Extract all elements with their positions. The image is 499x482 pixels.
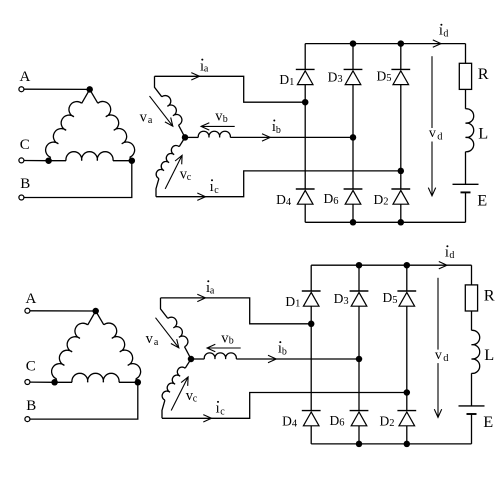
diode D4 (top circuit) [296,188,315,190]
svg-text:A: A [26,291,37,307]
svg-text:E: E [483,412,493,431]
wire ib to bridge (top circuit) [230,136,353,138]
svg-text:R: R [478,64,489,83]
arrow ic (bottom circuit) [203,415,211,422]
delta winding A-B (right side) (bottom circuit) [96,311,104,325]
wire ic to bridge (top circuit) [156,171,401,197]
svg-text:b: b [223,114,228,125]
node delta right vertex (top circuit) [129,157,136,164]
left rail (top circuit) [304,44,306,70]
junction top bus / right rail (bottom circuit) [404,262,411,269]
inductor L (bottom circuit) [472,330,480,373]
wire R to L (bottom circuit) [471,311,473,330]
svg-text:b: b [282,347,287,358]
wire B to delta right vertex (bottom circuit) [30,382,138,419]
diode D4 (bottom circuit) [302,410,321,412]
star neutral node (top circuit) [182,134,189,141]
svg-text:b: b [276,125,281,136]
wire C to delta left vertex (bottom circuit) [30,381,55,383]
svg-text:a: a [148,115,153,126]
junction bottom bus / middle rail (bottom circuit) [356,441,363,448]
junction ia on left rail (top circuit) [302,99,309,106]
svg-text:C: C [20,137,30,153]
wire L to battery (top circuit) [465,152,467,185]
wire ic to bridge (bottom circuit) [162,393,407,419]
diode D6 (bottom circuit) [350,410,369,412]
svg-text:d: d [443,353,449,364]
inductor L (top circuit) [466,109,474,152]
arrow vc (top circuit) [165,155,182,189]
node delta left vertex (top circuit) [45,157,52,164]
arrow vb (top circuit) [201,125,235,127]
diode D3 (top circuit) [344,68,363,70]
svg-text:B: B [26,398,36,414]
junction top bus / right rail (top circuit) [398,40,405,47]
winding a (bottom circuit) [161,298,168,319]
arrow vb (bottom circuit) [207,347,241,349]
left rail (bottom circuit) [310,265,312,291]
terminal A (bottom circuit) [25,308,30,313]
winding a (top circuit) [155,76,162,97]
wire battery to bottom bus (top circuit) [465,192,467,222]
diode D2 (top circuit) [391,188,410,190]
wire B to delta right vertex (top circuit) [24,161,132,198]
middle rail (bottom circuit) [358,265,360,291]
battery E plate + (bottom circuit) [459,405,485,407]
junction ia on left rail (bottom circuit) [308,321,315,328]
delta winding A-B (right side) (top circuit) [90,89,98,103]
terminal B (top circuit) [19,195,24,200]
battery E plate - (top circuit) [461,191,471,193]
delta winding C-B (bottom side) (bottom circuit) [55,381,72,383]
delta winding C-B (bottom side) (top circuit) [49,160,66,162]
resistor R (top circuit) [459,63,471,89]
junction ic on right rail (bottom circuit) [404,389,411,396]
arrow vd (bottom circuit) [437,278,439,350]
junction top bus / middle rail (top circuit) [350,40,357,47]
svg-text:L: L [478,123,488,142]
arrow va (top circuit) [150,96,173,126]
node delta apex (bottom circuit) [92,308,99,315]
middle rail (top circuit) [352,44,354,70]
terminal C (top circuit) [19,158,24,163]
arrow ia (bottom circuit) [197,294,205,301]
battery E plate - (bottom circuit) [467,413,477,415]
resistor R (bottom circuit) [465,285,477,311]
terminal B (bottom circuit) [25,417,30,422]
arrow va (bottom circuit) [156,318,179,348]
arrow ia (top circuit) [191,73,199,80]
svg-text:c: c [193,393,198,404]
bottom bus (top circuit) [305,221,465,223]
arrow ic (top circuit) [197,193,205,200]
svg-text:c: c [187,172,192,183]
svg-text:a: a [204,64,209,75]
svg-text:c: c [220,407,225,418]
wire ia to bridge (top circuit) [155,76,306,102]
winding c (bottom circuit) [185,359,191,368]
arrow ib (top circuit) [262,134,270,141]
arrow vd (top circuit) [431,56,433,128]
bottom bus (bottom circuit) [311,443,471,445]
diode D1 (top circuit) [296,68,315,70]
terminal C (bottom circuit) [25,380,30,385]
wire top bus corner to R (top circuit) [465,44,467,64]
junction bottom bus / right rail (top circuit) [398,219,405,226]
junction bottom bus / right rail (bottom circuit) [404,441,411,448]
arrow vc (bottom circuit) [171,377,188,411]
junction bottom bus / middle rail (top circuit) [350,219,357,226]
svg-text:v: v [140,110,148,126]
svg-text:d: d [449,250,454,261]
diode D3 (bottom circuit) [350,290,369,292]
junction ib on middle rail (top circuit) [350,134,357,141]
svg-text:a: a [210,285,215,296]
wire A to delta apex (top circuit) [24,88,90,90]
winding c (top circuit) [179,137,185,146]
wire ia to bridge (bottom circuit) [161,298,312,324]
svg-text:c: c [214,185,219,196]
wire A to delta apex (bottom circuit) [30,310,96,312]
battery E plate + (top circuit) [453,183,479,185]
junction ib on middle rail (bottom circuit) [356,356,363,363]
wire R to L (top circuit) [465,89,467,108]
svg-text:a: a [154,337,159,348]
junction top bus / middle rail (bottom circuit) [356,262,363,269]
diode D2 (bottom circuit) [397,410,416,412]
diode D6 (top circuit) [344,188,363,190]
svg-text:R: R [484,286,495,305]
diode D5 (bottom circuit) [397,290,416,292]
svg-text:d: d [443,29,448,40]
svg-text:d: d [437,132,443,143]
svg-text:C: C [26,359,36,375]
svg-text:b: b [229,335,234,346]
svg-text:v: v [435,348,442,363]
wire ib to bridge (bottom circuit) [236,358,359,360]
junction ic on right rail (top circuit) [398,168,405,175]
star neutral node (bottom circuit) [188,356,195,363]
winding b (top circuit) [185,136,198,138]
arrow id (top circuit) [433,40,441,47]
svg-text:v: v [429,126,436,141]
delta winding A-C (left side) (bottom circuit) [88,311,96,325]
top bus (top circuit) [305,43,465,45]
wire L to battery (bottom circuit) [471,373,473,406]
svg-text:E: E [477,191,487,210]
node delta left vertex (bottom circuit) [51,379,58,386]
arrow ib (bottom circuit) [268,355,276,362]
right rail (bottom circuit) [406,265,408,291]
svg-text:v: v [146,331,154,347]
arrow id (bottom circuit) [439,262,447,269]
svg-text:A: A [20,69,31,85]
svg-text:B: B [20,176,30,192]
delta winding A-C (left side) (top circuit) [82,89,90,103]
winding b (bottom circuit) [191,358,204,360]
top bus (bottom circuit) [311,264,471,266]
wire top bus corner to R (bottom circuit) [471,265,473,285]
node delta right vertex (bottom circuit) [135,379,142,386]
node delta apex (top circuit) [86,86,93,93]
wire C to delta left vertex (top circuit) [24,160,49,162]
wire battery to bottom bus (bottom circuit) [471,414,473,444]
svg-text:L: L [484,345,494,364]
terminal A (top circuit) [19,87,24,92]
diode D5 (top circuit) [391,68,410,70]
right rail (top circuit) [400,44,402,70]
diode D1 (bottom circuit) [302,290,321,292]
